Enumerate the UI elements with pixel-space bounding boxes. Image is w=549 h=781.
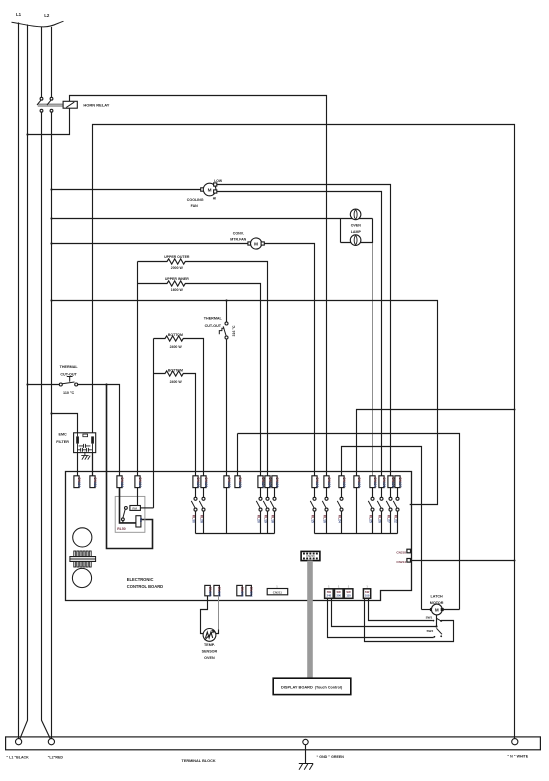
wire SWD pin2 to SW1 contact (369, 598, 433, 620)
connector CN123 (235, 476, 240, 488)
lamp bracket left (340, 219, 342, 243)
svg-text:CN123: CN123 (238, 477, 242, 487)
svg-text:THERMAL: THERMAL (60, 365, 79, 369)
svg-text:THERMAL: THERMAL (204, 316, 223, 320)
svg-text:BOTTOM: BOTTOM (168, 333, 183, 337)
wire coil top to board (x=326.8) (70, 96, 327, 476)
svg-text:BOTTOM: BOTTOM (168, 368, 183, 372)
svg-text:RL20: RL20 (256, 515, 260, 523)
svg-text:(Touch Control): (Touch Control) (315, 686, 343, 690)
feeder wire conn341 to latch motor left (342, 447, 422, 610)
wire SWA pin1 to SW2 contact (328, 598, 434, 637)
oven lamp feed (50, 217, 52, 219)
svg-text:RL19: RL19 (263, 515, 267, 523)
connector CN130 (312, 476, 317, 488)
svg-text:EMC: EMC (58, 432, 67, 436)
svg-text:SW: SW (346, 590, 351, 594)
svg-text:1600 W: 1600 W (171, 288, 184, 292)
svg-text:RL15: RL15 (310, 515, 314, 523)
feeder wire conn356 to N line (357, 410, 515, 476)
terminal L1 (16, 739, 22, 745)
wire upper elements left bus to board (137, 262, 139, 476)
oven lamp 1 (350, 209, 361, 220)
svg-text:CONV.: CONV. (233, 231, 244, 235)
svg-text:2400 W: 2400 W (170, 345, 183, 349)
svg-text:DISPLAY BOARD: DISPLAY BOARD (281, 685, 313, 690)
terminal L2 (48, 739, 54, 745)
relay RL16 (326, 488, 328, 498)
connector CN137 (395, 476, 400, 488)
svg-text:CUT-OUT: CUT-OUT (205, 324, 222, 328)
relay mechanical linkage (38, 104, 63, 106)
svg-text:SW1: SW1 (426, 616, 433, 620)
bus 2 (neutral relays) (315, 533, 398, 535)
svg-text:RL50: RL50 (117, 527, 125, 531)
svg-text:CN112: CN112 (120, 477, 124, 487)
transformer circle 2 (72, 568, 91, 587)
EMC ground (81, 456, 90, 460)
connector CN134 (370, 476, 375, 488)
svg-text:M: M (254, 241, 258, 246)
connector CN124 (258, 476, 263, 488)
svg-text:240: 240 (327, 594, 332, 598)
ribbon cable to display board (307, 561, 313, 679)
svg-text:RL28: RL28 (199, 515, 203, 523)
relay RL25 (372, 488, 374, 498)
convection fan motor M (248, 242, 251, 245)
temp sensor oven (thermistor) (203, 629, 216, 642)
svg-text:L1: L1 (16, 12, 22, 17)
svg-text:ELECTRONIC: ELECTRONIC (127, 577, 154, 582)
wire L2a (42, 27, 51, 739)
svg-text:RL16: RL16 (322, 515, 326, 523)
relay RL18 (274, 488, 276, 498)
wire conn119 to RL50 (thick) (120, 488, 136, 523)
svg-text:UPPER INNER: UPPER INNER (165, 277, 189, 281)
wire lamp to board (gray) (372, 243, 374, 476)
svg-text:CN218: CN218 (396, 551, 406, 555)
svg-text:CN304: CN304 (249, 587, 253, 597)
bus 1 (elements relays) (196, 533, 275, 535)
terminal GND (303, 739, 308, 744)
svg-text:CN110: CN110 (77, 477, 81, 487)
connector CN132 (339, 476, 344, 488)
wire fan LOW to board (217, 185, 391, 476)
svg-text:CN131: CN131 (327, 477, 331, 487)
svg-text:200: 200 (336, 594, 341, 598)
svg-text:CN303: CN303 (240, 587, 244, 597)
svg-text:L2: L2 (44, 13, 50, 18)
svg-text:SENSOR: SENSOR (202, 649, 218, 653)
wire L2b (51, 27, 53, 739)
thermal cut-out 316C (oven) (225, 299, 227, 301)
svg-text:CN214: CN214 (396, 560, 406, 564)
connector CN135 (379, 476, 384, 488)
wire coil bottom to L1b (28, 108, 70, 134)
heating element BOTTOM 2400W (lower) (154, 371, 196, 476)
transformer circle 1 (73, 528, 92, 547)
terminal N (512, 739, 518, 745)
svg-text:CN211: CN211 (273, 591, 283, 595)
svg-text:SW: SW (337, 590, 342, 594)
lamp bracket right (372, 219, 374, 244)
svg-text:CN126: CN126 (275, 477, 279, 487)
relay RL27 (390, 488, 392, 498)
svg-text:100: 100 (365, 594, 370, 598)
svg-text:RL18: RL18 (270, 515, 274, 523)
cooling fan motor M (201, 188, 204, 191)
electronic control board outline (66, 472, 412, 601)
svg-text:“ GND ” GREEN: “ GND ” GREEN (317, 755, 345, 759)
svg-text:CN302: CN302 (217, 587, 221, 597)
convection motor feed (50, 242, 52, 244)
connector CN112 (117, 476, 122, 488)
svg-text:RL24: RL24 (337, 515, 341, 523)
connector CN131 (324, 476, 329, 488)
connector CN136 (388, 476, 393, 488)
RL50 aux connector (136, 516, 141, 527)
svg-text:CN121: CN121 (204, 477, 208, 487)
display board (273, 678, 351, 694)
svg-text:CN132: CN132 (342, 477, 346, 487)
svg-text:LATCH: LATCH (430, 595, 443, 599)
connector CN125 (265, 476, 270, 488)
connector temp sensor pin2 (214, 585, 220, 595)
relay contact 2 (50, 97, 53, 100)
svg-text:RL27: RL27 (386, 515, 390, 523)
EMC filter (74, 433, 96, 453)
relay RL30 (195, 488, 197, 498)
relay RL24 (341, 488, 343, 498)
wire latch motor left stub (422, 609, 431, 611)
wire motor bottom (436, 615, 438, 627)
wire sensor left (201, 596, 208, 634)
relay RL28 (203, 488, 205, 498)
heating element UPPER INNER 1600W (138, 281, 261, 476)
connector CN111 (90, 476, 95, 488)
svg-text:LAMP: LAMP (351, 230, 362, 234)
svg-text:“ L1 ”BLACK: “ L1 ”BLACK (6, 755, 29, 759)
oven lamp 2 (350, 235, 361, 246)
EMC filter feed from L2b (50, 412, 52, 414)
wire SWA pin2 to motor bottom (332, 598, 437, 626)
wire L1b (20, 25, 28, 739)
cable break wave (12, 21, 64, 27)
svg-text:CN120: CN120 (196, 477, 200, 487)
relay RL22 (397, 488, 399, 498)
svg-text:CUT-OUT: CUT-OUT (60, 372, 77, 376)
svg-text:CN301: CN301 (208, 587, 212, 597)
svg-text:CN133: CN133 (357, 477, 361, 487)
svg-text:CN134: CN134 (373, 477, 377, 487)
wire conn356 straight to bus (356, 488, 358, 534)
heating element BOTTOM 2400W (upper) (154, 336, 204, 476)
svg-text:FILTER: FILTER (56, 440, 69, 444)
connector CN120 (193, 476, 198, 488)
svg-text:RL30: RL30 (191, 515, 195, 523)
svg-text:110: 110 (346, 594, 351, 598)
svg-text:110 °C: 110 °C (63, 391, 74, 395)
svg-text:SW: SW (327, 590, 332, 594)
svg-text:“ N ” WHITE: “ N ” WHITE (507, 755, 528, 759)
svg-text:401: 401 (139, 517, 143, 522)
svg-text:SW2: SW2 (426, 629, 433, 633)
wire bottom elements left bus into board to relay coil (153, 339, 155, 508)
wire latch motor right up (drawn in feeders) (443, 609, 459, 611)
svg-text:HI: HI (213, 196, 216, 200)
connector CN122 (224, 476, 229, 488)
wire EMC outputs to board (78, 453, 93, 476)
svg-text:316 °C: 316 °C (232, 325, 236, 336)
svg-text:FAN: FAN (191, 204, 199, 208)
terminal block (6, 737, 541, 750)
wire fan HI to board (217, 192, 382, 476)
svg-text:RM: RM (132, 506, 137, 510)
connector CN113 (135, 476, 140, 488)
svg-text:TERMINAL BLOCK: TERMINAL BLOCK (182, 759, 216, 763)
svg-text:CONTROL BOARD: CONTROL BOARD (127, 584, 163, 589)
wire cutout branch down to RL50 (thick) (105, 383, 107, 385)
svg-text:“L2”RED: “L2”RED (48, 755, 64, 759)
wire coil right to elements bus (140, 507, 153, 509)
svg-text:CN111: CN111 (93, 477, 97, 487)
svg-text:COOLING: COOLING (187, 198, 204, 202)
svg-text:RL26: RL26 (377, 515, 381, 523)
relay RL50 box (115, 496, 145, 532)
L2 bus to right (y=300) (50, 299, 52, 301)
RL50 coil (130, 506, 141, 511)
line filter choke (74, 551, 76, 557)
svg-text:2000 W: 2000 W (171, 266, 184, 270)
connector CN121 (201, 476, 206, 488)
relay coil K1 (63, 101, 77, 108)
wire conv motor to board (264, 244, 314, 476)
wire sensor right (gray upper) (218, 596, 220, 630)
ground symbol (305, 745, 307, 764)
svg-text:CN205: CN205 (306, 554, 315, 558)
cooling fan feed (50, 188, 52, 190)
wire SWD pin1 loop to SW1 right contact (365, 598, 454, 641)
svg-text:CN137: CN137 (398, 477, 402, 487)
feeder wire conn237 from bus-437 (238, 434, 460, 610)
connector CN205 (ribbon) (301, 551, 320, 560)
connector CN133 (354, 476, 359, 488)
svg-text:CN130: CN130 (315, 477, 319, 487)
svg-text:SW: SW (365, 590, 370, 594)
svg-text:RL25: RL25 (368, 515, 372, 523)
wire conn137 to coil top (137, 488, 139, 506)
svg-text:CN113: CN113 (138, 477, 142, 487)
svg-text:CN122: CN122 (227, 477, 231, 487)
svg-text:LOW: LOW (214, 179, 223, 183)
svg-text:MTR.FAN: MTR.FAN (230, 238, 246, 242)
relay RL15 (314, 488, 316, 498)
svg-text:HORN RELAY: HORN RELAY (83, 103, 109, 108)
connector CN110 (74, 476, 79, 488)
relay RL20 (260, 488, 262, 498)
svg-text:M: M (208, 187, 212, 192)
relay contact 1 (40, 97, 43, 100)
lamp bracket bottom (341, 242, 373, 244)
svg-text:M: M (435, 607, 439, 612)
connector CN126 (272, 476, 277, 488)
svg-text:2400 W: 2400 W (170, 380, 183, 384)
connector spare pin2 (246, 585, 252, 595)
svg-text:CN135: CN135 (382, 477, 386, 487)
wire conn226 straight to bus (226, 488, 228, 534)
RL50 switch (125, 507, 128, 510)
svg-text:RL22: RL22 (393, 515, 397, 523)
wire L1a (black) (18, 23, 20, 739)
relay RL19 (267, 488, 269, 498)
heating element UPPER OUTER 2000W (138, 259, 268, 476)
svg-text:UPPER OUTER: UPPER OUTER (164, 255, 190, 259)
svg-text:OVEN: OVEN (204, 656, 215, 660)
connector spare pin1 (237, 585, 243, 595)
connector temp sensor pin1 (205, 585, 211, 595)
neutral bus N: board connector up, across, down right side (93, 125, 515, 739)
thermal cut-out 110C (cooling) (26, 383, 28, 385)
svg-text:TEMP.: TEMP. (204, 643, 215, 647)
svg-text:OVEN: OVEN (351, 224, 362, 228)
relay RL26 (381, 488, 383, 498)
